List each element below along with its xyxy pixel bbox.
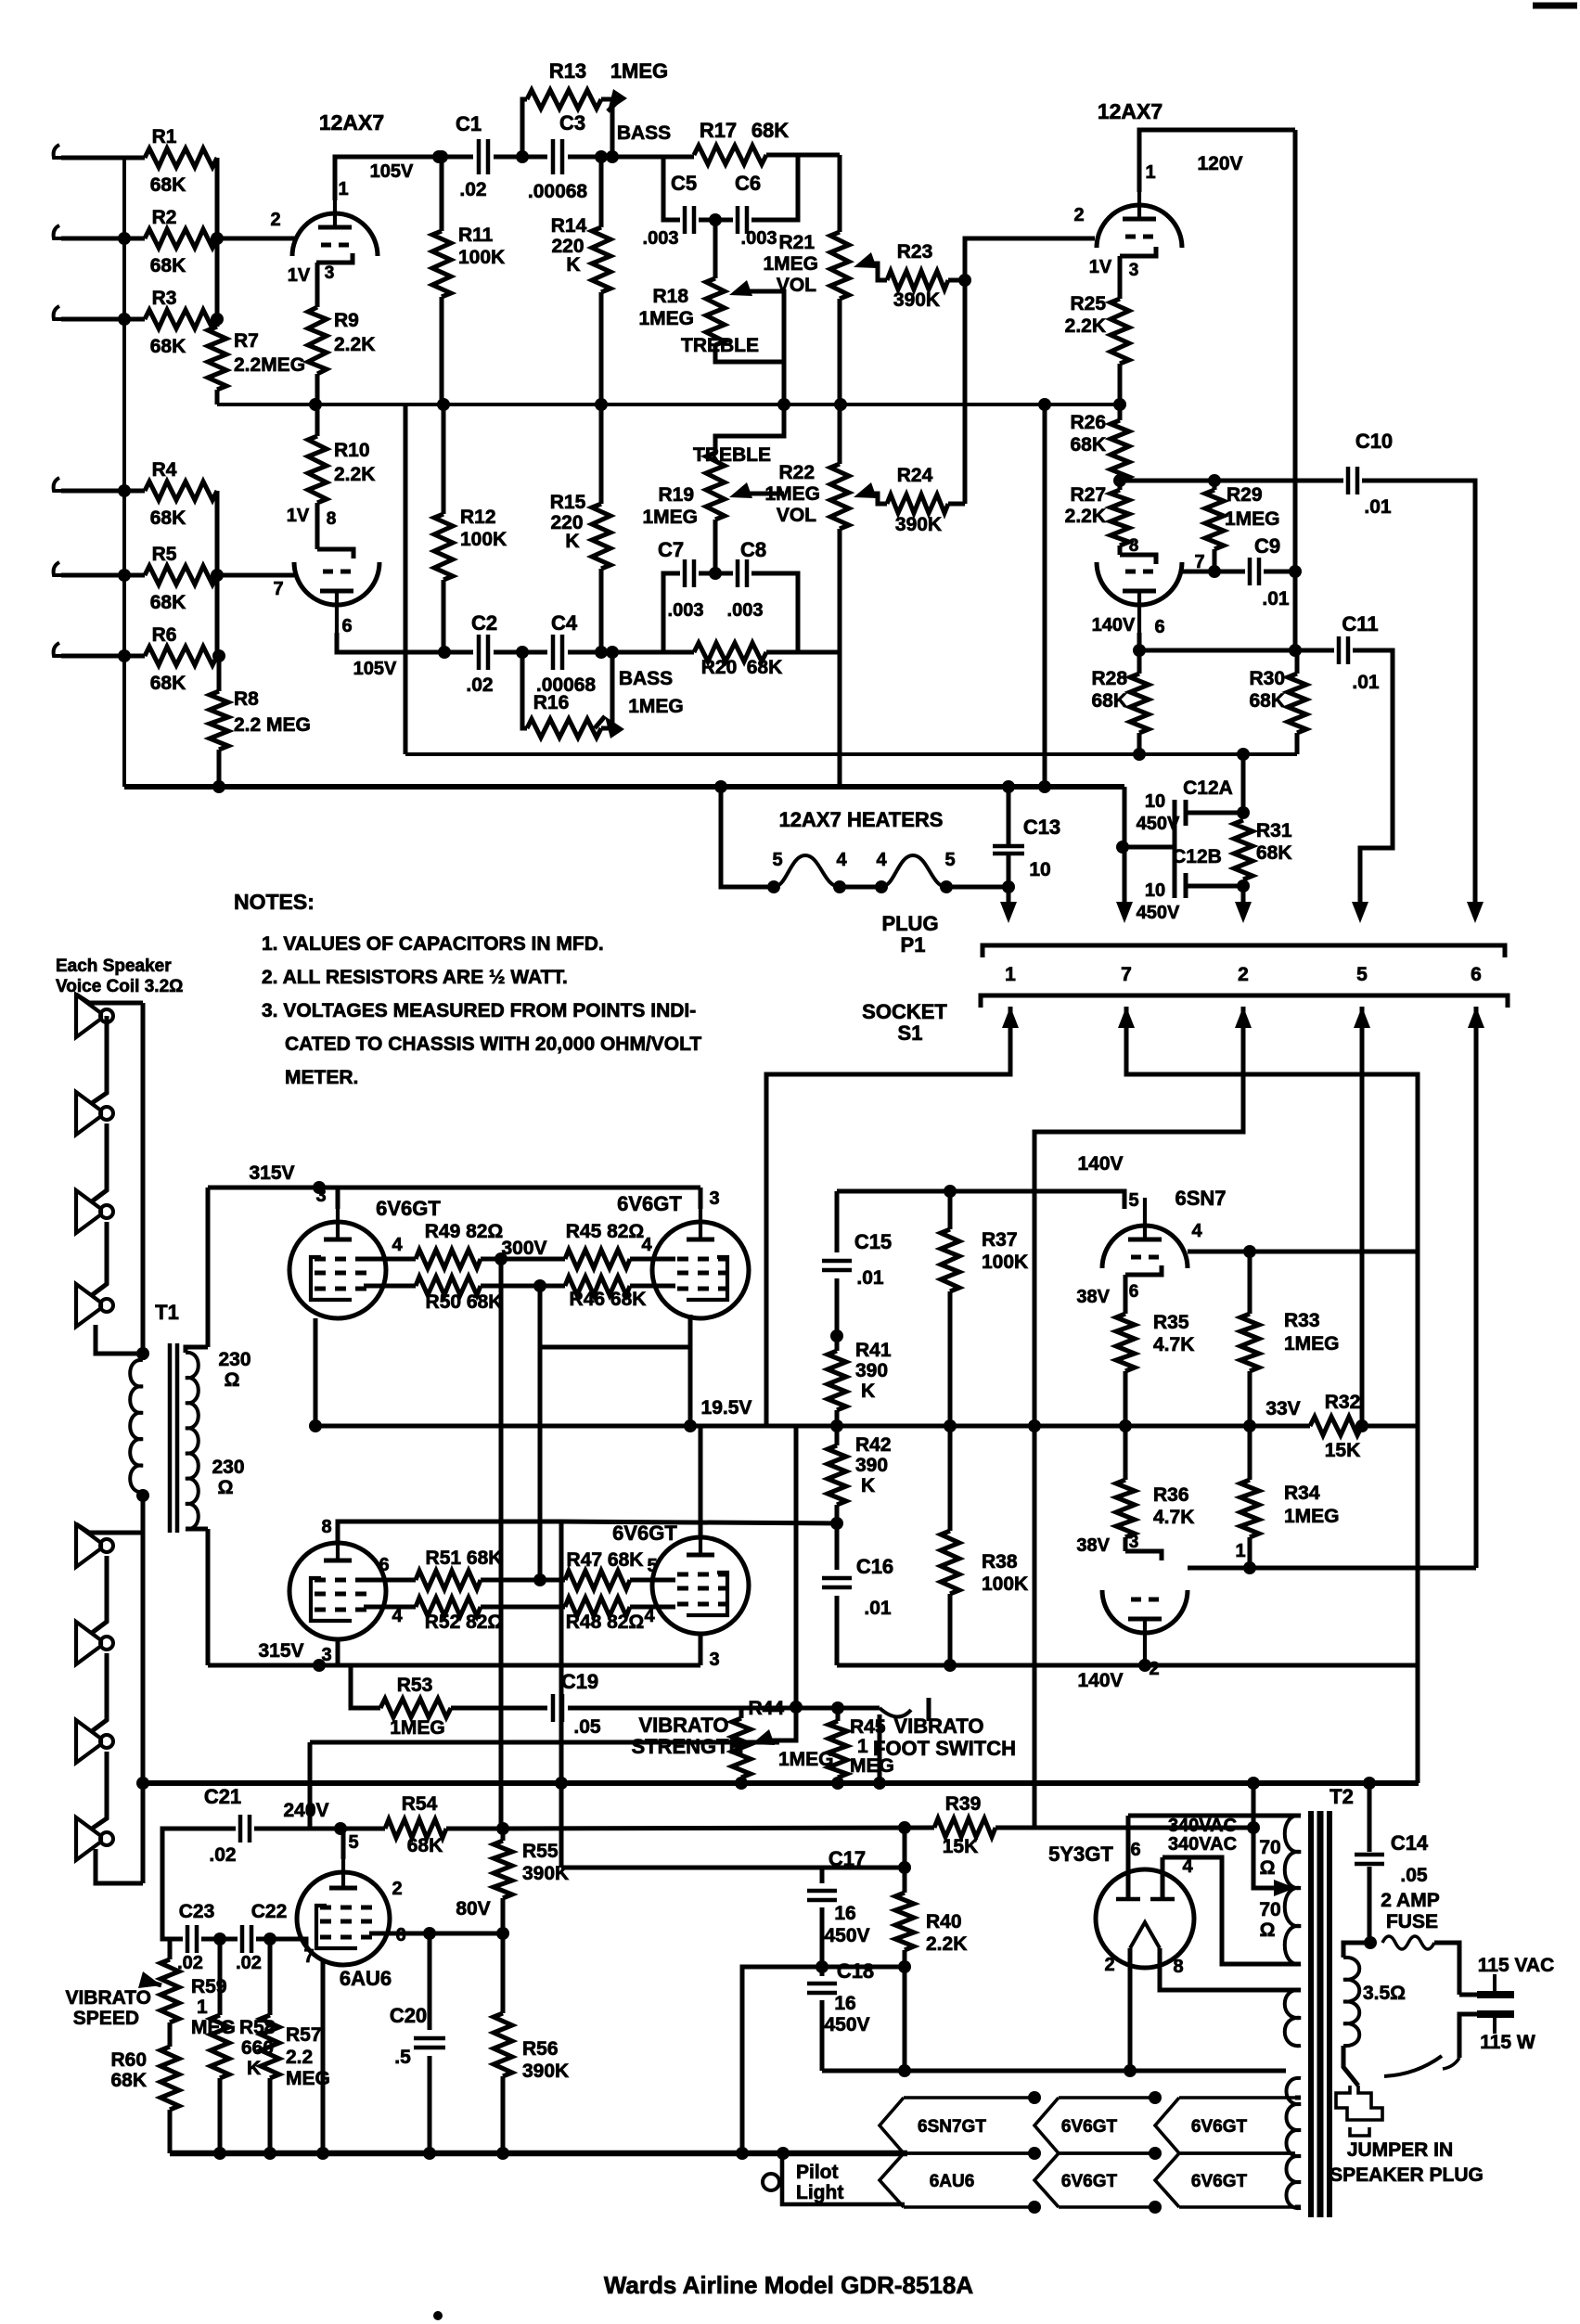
svg-text:.003: .003: [727, 600, 764, 621]
svg-text:.5: .5: [394, 2047, 411, 2068]
resistor R45 82ohm: [501, 1257, 565, 1262]
svg-text:.01: .01: [1262, 588, 1290, 610]
svg-text:R26: R26: [1070, 412, 1106, 433]
resistor R12 100K: [434, 514, 453, 580]
resistor R33 1MEG: [1248, 1252, 1252, 1314]
wire HV center tap to B+ bus: [1253, 1783, 1285, 1888]
svg-text:6V6GT: 6V6GT: [612, 1522, 677, 1545]
transformer T1 core: [168, 1343, 173, 1533]
svg-text:BASS: BASS: [619, 668, 673, 689]
speaker plug jumper symbol: [1336, 2086, 1382, 2120]
svg-text:K: K: [861, 1475, 875, 1496]
svg-text:16: 16: [834, 1903, 855, 1924]
node main bias bus y436: [217, 403, 1120, 406]
svg-text:STRENGTH: STRENGTH: [632, 1735, 744, 1758]
svg-text:140V: 140V: [1077, 1670, 1123, 1691]
svg-text:R53: R53: [397, 1675, 433, 1696]
svg-text:R12: R12: [460, 507, 496, 528]
capacitor C3 .00068: [551, 139, 556, 174]
wire heater to C13 node: [946, 885, 1008, 890]
resistor R8 2.2MEG: [217, 656, 222, 691]
op-amp V1a triode upper half: [292, 213, 378, 256]
svg-text:68K: 68K: [110, 2070, 147, 2091]
speaker SP8: [76, 1817, 101, 1860]
wire R54/R55 node right: [503, 1828, 934, 1829]
svg-text:3: 3: [1129, 1533, 1139, 1552]
wire plug pin1 arrow: [1007, 887, 1011, 905]
resistor R11 100K: [440, 157, 444, 231]
potentiometer R16 1MEG BASS lower: [522, 652, 527, 728]
plug P1 bracket: [983, 945, 1505, 957]
svg-text:R5: R5: [152, 544, 177, 565]
svg-text:PLUG: PLUG: [881, 912, 938, 935]
V1b plate wire to 105V lower node: [337, 633, 444, 652]
svg-text:315V: 315V: [258, 1640, 303, 1662]
svg-text:VOL: VOL: [777, 275, 816, 296]
resistor R25 2.2K: [1118, 256, 1123, 299]
junction: [118, 232, 131, 245]
svg-text:5: 5: [647, 1556, 657, 1576]
wire heater loop left: [721, 787, 770, 887]
svg-text:C22: C22: [251, 1901, 288, 1922]
socket pin6 arrow wire: [1468, 1007, 1484, 1028]
heater box 6AU6: [904, 2151, 1034, 2155]
capacitor C8 .003: [699, 571, 733, 576]
svg-text:2: 2: [270, 210, 280, 230]
svg-text:6: 6: [1129, 1282, 1139, 1302]
svg-text:T2: T2: [1330, 1785, 1354, 1808]
wire R24 to mixer vertical: [948, 502, 965, 507]
wire C4 to R15 node: [568, 650, 663, 655]
capacitor C12B 10 450V: [1184, 873, 1188, 898]
svg-text:3: 3: [709, 1650, 719, 1670]
capacitor C9 .01: [1214, 570, 1245, 574]
resistor R51 68K: [416, 1571, 481, 1589]
svg-text:2.2K: 2.2K: [334, 334, 375, 355]
svg-text:390: 390: [855, 1360, 888, 1381]
svg-text:R33: R33: [1284, 1310, 1320, 1331]
resistor R29 1MEG: [1213, 481, 1217, 490]
svg-text:5: 5: [348, 1832, 358, 1853]
svg-text:5Y3GT: 5Y3GT: [1048, 1843, 1113, 1866]
wire C11 to socket pin5 drop: [1353, 650, 1393, 914]
V3 grid lead pin4 / R49: [364, 1257, 416, 1262]
svg-text:C7: C7: [658, 538, 684, 561]
capacitor C15 .01: [835, 1191, 840, 1252]
svg-text:5: 5: [1128, 1190, 1138, 1211]
svg-text:1: 1: [1235, 1541, 1245, 1561]
svg-text:2.2: 2.2: [286, 2047, 313, 2068]
svg-text:C2: C2: [471, 611, 497, 635]
V2b grid wire to C9: [1182, 570, 1214, 574]
V9 pin8 wire to 5V winding: [1160, 1948, 1301, 1990]
resistor R24 390K: [887, 494, 948, 513]
svg-text:R39: R39: [945, 1793, 982, 1815]
svg-text:450V: 450V: [1137, 814, 1180, 834]
svg-text:R60: R60: [110, 2049, 147, 2071]
transformer T2 5V winding: [1285, 1990, 1301, 2046]
svg-text:R10: R10: [334, 440, 370, 461]
node B- return line y2232: [822, 2069, 1286, 2074]
svg-text:10: 10: [1029, 859, 1050, 880]
capacitor C7 .003: [663, 573, 680, 652]
svg-text:2: 2: [1238, 964, 1249, 985]
svg-text:1: 1: [1005, 964, 1016, 985]
svg-text:6V6GT: 6V6GT: [1061, 2172, 1118, 2191]
resistor R14 220K: [592, 227, 610, 292]
svg-text:6: 6: [1471, 964, 1482, 985]
wire 6AU6 g2 to 80V node: [369, 1932, 503, 1936]
svg-text:4.7K: 4.7K: [1153, 1334, 1194, 1355]
node 19.5V mid bus: [315, 1424, 1310, 1429]
wire R17/C5C6 box top net: [663, 155, 694, 160]
wire T1 primary top to 315V top: [206, 1188, 211, 1347]
svg-text:1MEG: 1MEG: [638, 308, 694, 329]
V7b cathode bracket pin3: [1125, 1551, 1162, 1560]
svg-text:.003: .003: [741, 228, 777, 249]
svg-text:R8: R8: [234, 688, 259, 710]
resistor R17 68K: [694, 146, 766, 164]
svg-text:R46 68K: R46 68K: [570, 1289, 647, 1310]
V7b plate wire to 140V bottom bus: [1143, 1661, 1148, 1665]
svg-text:68K: 68K: [150, 174, 186, 196]
svg-text:100K: 100K: [982, 1252, 1028, 1273]
svg-text:6AU6: 6AU6: [930, 2172, 975, 2191]
wire C1 to C3: [494, 155, 547, 160]
svg-text:6V6GT: 6V6GT: [1191, 2117, 1248, 2137]
svg-text:340VAC: 340VAC: [1168, 1834, 1237, 1855]
svg-text:140V: 140V: [1077, 1153, 1123, 1175]
svg-text:1MEG: 1MEG: [1284, 1506, 1340, 1527]
capacitor C13 10: [1007, 787, 1011, 845]
resistor R31 68K: [1234, 820, 1252, 880]
resistor R32 15K: [1310, 1417, 1362, 1435]
svg-text:68K: 68K: [747, 657, 783, 678]
svg-text:C4: C4: [551, 611, 578, 635]
resistor R15 220K: [592, 504, 610, 569]
svg-text:140V: 140V: [1092, 615, 1136, 636]
capacitor C5 .003: [663, 157, 680, 220]
svg-text:240V: 240V: [283, 1800, 328, 1821]
switch vibrato foot switch: [838, 1706, 880, 1711]
speaker SP6: [76, 1622, 101, 1664]
wire voice coil vertical x154: [141, 1003, 146, 1360]
wire 105V lower to C2: [444, 650, 473, 655]
input jack J4: [54, 478, 61, 491]
svg-text:R45 82Ω: R45 82Ω: [566, 1221, 645, 1242]
wire R9 bottom to bus: [315, 374, 320, 404]
svg-text:.02: .02: [236, 1953, 262, 1973]
wire screen drop from R46 node: [540, 1286, 690, 1347]
resistor R58 660K: [218, 1939, 223, 2015]
svg-text:390K: 390K: [895, 514, 942, 535]
heater box 6V6GT b: [1179, 2096, 1295, 2099]
svg-text:R4: R4: [152, 459, 177, 481]
svg-text:68K: 68K: [1091, 690, 1127, 712]
wire plate lower node to C11: [1139, 648, 1334, 653]
wire 300V column down: [499, 1259, 504, 1829]
V7a cathode bracket pin6: [1125, 1265, 1162, 1275]
svg-text:.02: .02: [459, 179, 486, 200]
svg-text:R31: R31: [1256, 820, 1292, 841]
svg-text:C18: C18: [837, 1959, 874, 1983]
resistor R2 68K: [91, 237, 145, 241]
socket pin1 arrow wire: [1002, 1007, 1019, 1028]
svg-text:C3: C3: [559, 111, 585, 135]
wire grid ch1 to V1a pin2: [217, 237, 295, 241]
capacitor C1 .02: [477, 139, 482, 174]
capacitor C6 .003: [699, 218, 733, 223]
svg-text:19.5V: 19.5V: [701, 1397, 752, 1419]
svg-text:390K: 390K: [522, 2061, 569, 2082]
resistor R53 1MEG: [351, 1665, 380, 1708]
svg-text:C12A: C12A: [1183, 777, 1233, 799]
wire C21 to C23 loop: [162, 1829, 236, 1935]
wire vibrato node dots: [790, 1701, 803, 1714]
switch power SW: [1443, 2058, 1459, 2069]
socket S1 bracket: [981, 995, 1508, 1008]
svg-text:C20: C20: [390, 2004, 427, 2027]
socket pin5 arrow wire: [1354, 1007, 1370, 1028]
input jack J3: [54, 306, 61, 319]
svg-text:5: 5: [772, 850, 782, 870]
wire C18/R40 bottom junction: [822, 1965, 905, 1970]
svg-text:68K: 68K: [150, 507, 186, 529]
wire R1-R3 tie vertical: [215, 158, 220, 319]
svg-text:68K: 68K: [150, 673, 186, 694]
svg-text:R6: R6: [152, 624, 177, 646]
svg-text:R9: R9: [334, 310, 359, 331]
svg-text:R48 82Ω: R48 82Ω: [566, 1611, 645, 1633]
speaker SP1: [76, 995, 101, 1037]
wire V3 cathode to 19.5V bus: [314, 1318, 318, 1426]
svg-text:R23: R23: [897, 241, 933, 263]
pilot light: [782, 2158, 905, 2204]
svg-text:8: 8: [321, 1517, 331, 1537]
V9 filament: [1130, 1922, 1160, 1948]
svg-text:JUMPER IN: JUMPER IN: [1347, 2139, 1453, 2161]
svg-text:R42: R42: [855, 1434, 892, 1456]
svg-text:R40: R40: [926, 1911, 962, 1932]
wire R47 node up: [538, 1286, 543, 1580]
svg-text:Wards Airline Model GDR-8518A: Wards Airline Model GDR-8518A: [604, 2271, 973, 2299]
node bottom ground bus: [170, 2151, 907, 2157]
resistor R36 4.7K: [1116, 1480, 1135, 1537]
svg-text:6V6GT: 6V6GT: [1191, 2172, 1248, 2191]
svg-text:C19: C19: [561, 1670, 598, 1693]
svg-text:230: 230: [212, 1457, 244, 1478]
svg-text:2.2 MEG: 2.2 MEG: [234, 714, 311, 736]
junction: [118, 313, 131, 326]
potentiometer R21 1MEG VOL: [838, 155, 842, 232]
wire mixer node to V2a grid: [965, 238, 1095, 280]
resistor R34 1MEG: [1240, 1480, 1259, 1537]
svg-text:Ω: Ω: [225, 1369, 240, 1391]
svg-text:NOTES:: NOTES:: [234, 890, 315, 914]
wire feedback drop x437: [404, 404, 408, 754]
svg-text:2: 2: [1104, 1955, 1114, 1975]
svg-text:FUSE: FUSE: [1386, 1911, 1438, 1932]
svg-text:4: 4: [876, 850, 887, 870]
svg-text:100K: 100K: [460, 529, 507, 550]
capacitor C2 .02: [477, 635, 482, 670]
capacitor C12A 10 450V: [1241, 754, 1246, 813]
svg-text:R36: R36: [1153, 1484, 1189, 1506]
svg-text:CATED TO CHASSIS WITH 20,000 O: CATED TO CHASSIS WITH 20,000 OHM/VOLT: [285, 1034, 701, 1055]
V2b plate wire 140V: [1137, 633, 1142, 650]
V1a cathode to R9: [315, 263, 320, 307]
capacitor C11 .01: [1337, 636, 1342, 664]
input jack J1: [54, 145, 61, 158]
svg-text:115 VAC: 115 VAC: [1478, 1955, 1555, 1976]
resistor R38 100K: [941, 1531, 959, 1594]
svg-text:SPEAKER PLUG: SPEAKER PLUG: [1330, 2164, 1484, 2186]
svg-text:390K: 390K: [893, 289, 940, 311]
svg-text:C1: C1: [456, 112, 482, 135]
wire C12 tap to pin7 column: [1123, 845, 1175, 850]
capacitor C14 .05: [1368, 1783, 1372, 1852]
resistor R47 68K: [540, 1578, 565, 1583]
svg-text:1: 1: [338, 179, 348, 199]
wire T1 primary bottom to 315V bottom: [206, 1529, 211, 1665]
svg-text:10: 10: [1145, 791, 1165, 812]
svg-text:70: 70: [1259, 1899, 1280, 1920]
svg-text:R14: R14: [551, 215, 587, 237]
svg-text:BASS: BASS: [617, 122, 671, 144]
heater box 6V6GT a: [1059, 2096, 1155, 2099]
svg-text:68K: 68K: [1249, 690, 1285, 712]
svg-text:2.2K: 2.2K: [1065, 315, 1106, 337]
wire C17 left feed: [561, 1866, 822, 1870]
op-amp V2a triode upper half: [1097, 205, 1182, 248]
svg-text:3.5Ω: 3.5Ω: [1363, 1983, 1406, 2004]
svg-text:R47 68K: R47 68K: [567, 1549, 644, 1571]
transformer T1 secondary winding: [130, 1360, 143, 1492]
svg-text:6: 6: [1130, 1840, 1140, 1860]
svg-text:1V: 1V: [288, 265, 311, 286]
svg-text:METER.: METER.: [285, 1067, 358, 1088]
svg-text:1: 1: [197, 1997, 208, 2018]
svg-text:K: K: [565, 531, 579, 552]
wire R32 right down x1528: [1416, 1252, 1420, 1426]
tube V8 6AU6: [297, 1872, 390, 1965]
svg-text:R7: R7: [234, 330, 259, 352]
wire plug pin6 arrow: [1467, 902, 1484, 923]
V2a cathode bracket pin 3: [1120, 247, 1156, 256]
svg-text:450V: 450V: [1137, 903, 1180, 923]
node main lower ground bus: [143, 1780, 1419, 1786]
svg-text:TREBLE: TREBLE: [681, 335, 759, 356]
svg-text:Ω: Ω: [218, 1477, 234, 1498]
svg-text:1: 1: [857, 1736, 868, 1757]
svg-text:.003: .003: [643, 228, 679, 249]
svg-text:R55: R55: [522, 1841, 559, 1862]
svg-text:VIBRATO: VIBRATO: [894, 1714, 984, 1738]
svg-text:8: 8: [1173, 1957, 1183, 1977]
wire x1115 column down to 240V line: [1033, 1426, 1037, 1828]
wire speaker chain: [76, 995, 143, 1003]
speaker SP7: [76, 1720, 101, 1763]
resistor R57 2.2MEG: [268, 1939, 273, 2015]
wire C19 to vibrato node: [568, 1706, 741, 1711]
svg-text:R15: R15: [550, 492, 586, 513]
resistor R48 82ohm: [501, 1605, 565, 1610]
svg-text:R18: R18: [652, 286, 688, 307]
V9 plate right pin4: [1161, 1857, 1165, 1899]
resistor R40 2.2K: [903, 1868, 907, 1893]
node feedback line y813: [405, 752, 1297, 756]
svg-text:1MEG: 1MEG: [1284, 1333, 1340, 1355]
resistor R35 4.7K: [1124, 1275, 1128, 1314]
svg-text:3: 3: [1129, 261, 1139, 280]
svg-text:Light: Light: [796, 2182, 843, 2203]
R44 wiper arrow: [751, 1729, 775, 1745]
resistor R54 68K: [340, 1827, 385, 1831]
svg-text:R2: R2: [152, 207, 177, 228]
svg-text:VIBRATO: VIBRATO: [639, 1714, 729, 1737]
R21 wiper from R23: [854, 252, 877, 268]
svg-text:38V: 38V: [1076, 1287, 1110, 1307]
svg-text:1MEG: 1MEG: [642, 507, 698, 528]
resistor R4 68K: [91, 489, 145, 494]
wire C10 net: [1362, 481, 1475, 914]
svg-text:8: 8: [1129, 536, 1139, 556]
heater box 6V6GT c: [1059, 2151, 1155, 2155]
wire heater box junctions: [1028, 2147, 1041, 2160]
svg-text:1MEG: 1MEG: [764, 483, 820, 505]
resistor R23 390K: [887, 271, 948, 289]
heater box 6V6GT d: [1179, 2151, 1295, 2155]
V3 screen lead pin5 / R50: [364, 1284, 416, 1289]
svg-text:R34: R34: [1284, 1483, 1320, 1504]
svg-text:.01: .01: [856, 1267, 884, 1289]
wire C3 to R14 node: [568, 155, 663, 160]
svg-text:12AX7: 12AX7: [1098, 99, 1163, 123]
svg-text:4: 4: [1191, 1221, 1202, 1241]
V5 grid lead / R51: [364, 1578, 416, 1583]
wire R44 wiper line to oscillator: [310, 1740, 779, 1745]
wire plug pin2 arrow: [1241, 886, 1246, 902]
wire R42 bottom node to V5 cathode line: [830, 1517, 843, 1530]
node ground bus y848: [124, 784, 1124, 790]
potentiometer R22 1MEG VOL lower: [830, 464, 849, 529]
svg-text:105V: 105V: [353, 659, 397, 679]
svg-text:68K: 68K: [150, 255, 186, 276]
svg-text:.05: .05: [1400, 1865, 1428, 1886]
svg-text:R29: R29: [1227, 484, 1263, 506]
wire plate node to C10 line: [1120, 479, 1343, 483]
wire mixer vertical: [963, 280, 968, 504]
transformer T2 HV secondary winding: [1285, 1816, 1301, 1888]
wire R41/R42 to vibrato pot feed x858: [796, 1426, 837, 1707]
svg-text:C21: C21: [204, 1785, 241, 1808]
svg-text:C5: C5: [671, 172, 697, 195]
svg-text:VIBRATO: VIBRATO: [65, 1987, 151, 2009]
speaker SP2: [76, 1092, 101, 1135]
svg-text:1MEG: 1MEG: [390, 1717, 445, 1739]
svg-text:C10: C10: [1355, 430, 1393, 453]
transformer T2 heater winding: [1286, 2078, 1301, 2208]
svg-text:12AX7 HEATERS: 12AX7 HEATERS: [779, 808, 944, 831]
svg-text:1MEG: 1MEG: [1225, 508, 1280, 530]
V1b cathode bracket pin 8: [315, 503, 320, 549]
svg-text:230: 230: [218, 1349, 250, 1370]
svg-text:3. VOLTAGES MEASURED FROM POI: 3. VOLTAGES MEASURED FROM POINTS INDI-: [262, 1000, 696, 1021]
resistor R3 68K: [91, 317, 145, 322]
svg-text:2: 2: [1073, 205, 1084, 225]
svg-text:300V: 300V: [501, 1238, 546, 1259]
wire plug pin5 arrow: [1352, 902, 1368, 923]
